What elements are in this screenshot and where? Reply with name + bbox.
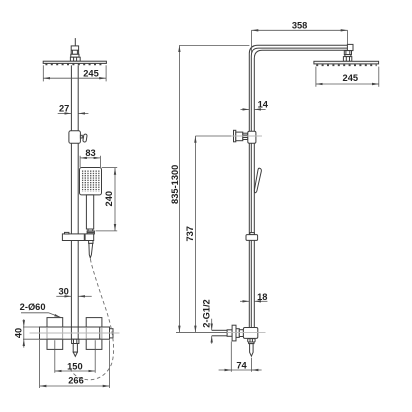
washers [236,329,239,338]
dimension 18 [240,300,267,302]
diverter tube [73,344,77,353]
label 2-G1/2 [211,319,213,344]
extension line top (835-1300) [179,44,249,46]
svg-text:2-Ø60: 2-Ø60 [20,302,46,312]
dimension 266 [40,340,110,388]
extension to height dimensions [176,331,227,333]
head connector side [344,51,351,55]
svg-text:835-1300: 835-1300 [170,165,180,204]
diverter tip [73,352,77,356]
dimension 40 [23,319,39,347]
arm end cap [347,44,353,50]
mixer escutcheon upper left [47,318,63,327]
riser pipe front [70,65,72,339]
hand shower handle front [86,195,93,229]
svg-text:737: 737 [185,226,195,242]
diverter nut below mixer [72,339,79,343]
slider knob stem [80,135,82,138]
mixer centerline front [30,332,120,334]
hose cone [89,243,93,257]
shower plate nozzles side [316,64,377,66]
dimension 245 front [43,65,106,81]
hand shower head front [80,168,102,195]
slider knob handle [83,134,88,142]
svg-text:2-G1/2: 2-G1/2 [201,299,211,327]
mixer body bar front [40,327,110,339]
handle end step [88,229,93,231]
slider bracket front [69,131,81,144]
svg-text:74: 74 [236,360,247,370]
svg-text:240: 240 [104,191,114,207]
svg-text:245: 245 [343,73,359,83]
svg-text:18: 18 [257,292,267,302]
mixer escutcheon lower left [47,339,63,349]
slide-bar holder front [62,234,93,241]
inlet fitting [227,330,232,337]
svg-text:150: 150 [67,362,83,372]
dimension 835-1300 [178,45,180,332]
dimension 737 [194,136,196,332]
svg-text:245: 245 [83,69,99,79]
mixer bar end divider [99,327,101,339]
bracket centerline / 737 extension [195,135,231,137]
dimension 150 [55,340,95,373]
dimension 14 [241,108,266,110]
dimension 245 side [316,67,379,87]
inlet flange [232,325,236,341]
holder ear [65,232,69,234]
mixer escutcheon lower right [86,339,102,349]
overhead shower plate front [43,61,106,63]
dimension 83 [80,156,100,167]
dimension 27 [58,112,89,114]
svg-text:27: 27 [59,104,69,114]
dimension 358 [252,30,348,52]
mixer centerline side [176,332,266,334]
top connector nut front [71,46,78,54]
dimension 240 [96,168,118,231]
svg-text:30: 30 [59,286,69,296]
hose outlet cap right end [110,329,114,338]
dimension 74 [219,342,262,372]
dimension 30 [56,295,91,297]
hose nut on handle [87,231,94,234]
svg-text:83: 83 [85,148,95,158]
shower plate nozzles front [45,63,104,65]
label 2-Ø60 leader [21,313,61,318]
svg-text:358: 358 [292,21,308,31]
mixer body side [243,328,257,339]
mixer escutcheon upper right [86,318,102,327]
riser pipe and arm side (bend) [249,45,352,327]
hand shower side (teardrop) [254,168,261,193]
hand shower spray face dots [82,171,100,192]
outlet nut below [248,339,255,342]
union nut side [250,233,254,235]
svg-text:40: 40 [14,328,24,338]
slider bracket side [234,130,236,142]
overhead shower plate side [314,61,379,64]
inlet stub front [74,38,76,46]
flexible hose dashed [71,259,114,380]
hose connector below holder [89,241,93,244]
outlet tube [250,344,254,357]
mixer bar joint lines [47,327,102,339]
svg-text:266: 266 [68,375,84,385]
svg-text:14: 14 [258,99,269,109]
wall supply stub [212,329,227,331]
